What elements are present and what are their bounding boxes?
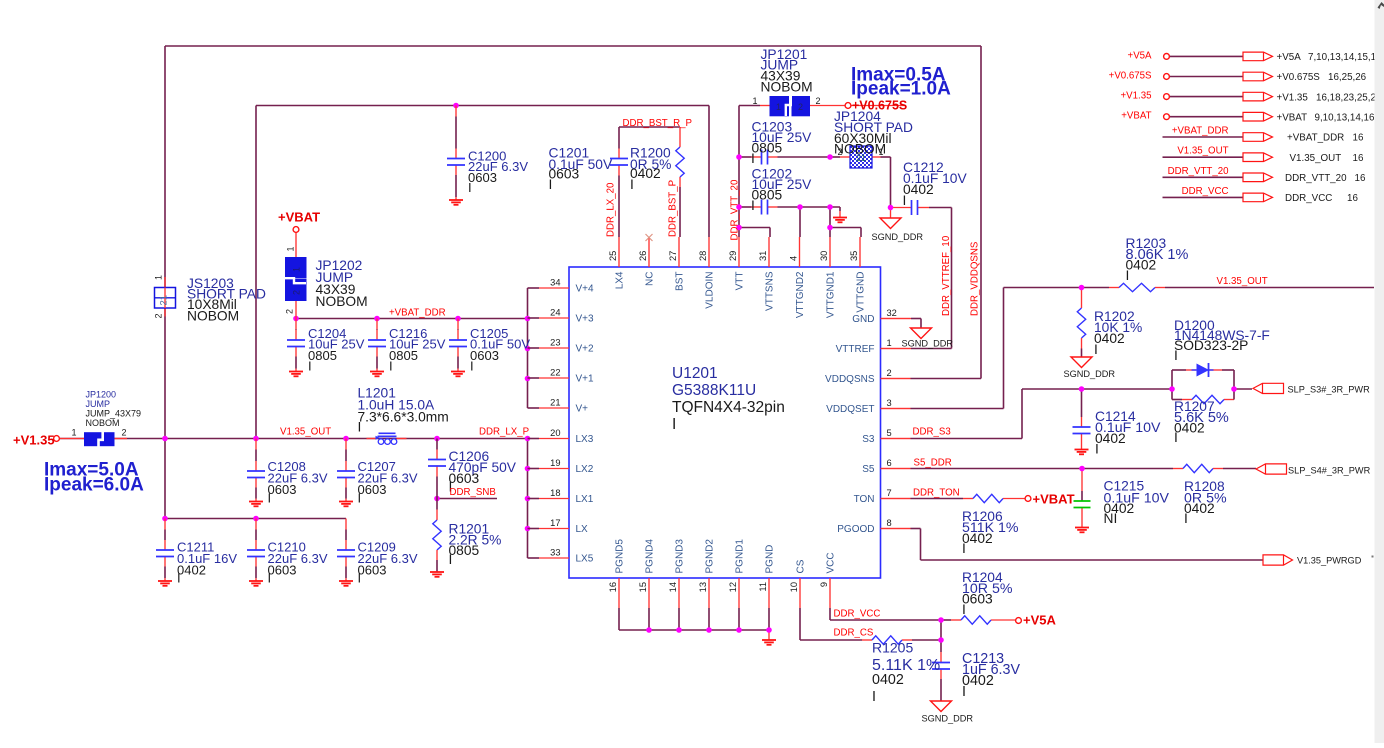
pin 4 VTTGND2 [789,237,807,318]
pin 22 V+1 [528,368,595,385]
pin 29 VTT [728,237,746,290]
svg-text:Ipeak=1.0A: Ipeak=1.0A [851,79,951,100]
wire S5 / SLP_S4 row [881,468,911,470]
svg-text:VTT: VTT [735,272,746,291]
svg-text:16: 16 [1353,133,1364,144]
svg-text:2: 2 [798,102,803,112]
capacitor C1213 [932,663,950,670]
jumper JP1200 [72,428,127,448]
label C1212 value [903,160,968,208]
wire DDR_VDDQSNS vertical [980,46,982,379]
node +VBAT terminal at JP1202 [278,210,320,233]
wire VTTGND1 pin30 vertical [829,207,831,228]
svg-text:16,25,26: 16,25,26 [1328,72,1367,83]
label JS1203 [187,276,266,324]
svg-text:+V0.675S: +V0.675S [1109,71,1152,82]
svg-text:BST: BST [675,272,686,291]
svg-text:DDR_VCC: DDR_VCC [834,609,881,620]
svg-text:0402: 0402 [630,166,661,181]
capacitor C1200 [447,106,465,205]
pin 21 V+ [528,398,589,415]
svg-text:VDDQSET: VDDQSET [826,404,874,415]
svg-text:I: I [449,552,453,567]
svg-text:DDR_LX_20: DDR_LX_20 [606,182,617,237]
svg-text:I: I [672,416,676,433]
svg-text:2: 2 [292,290,302,295]
svg-text:4: 4 [789,256,799,261]
svg-text:NOBOM: NOBOM [761,80,813,95]
svg-text:2: 2 [887,368,892,378]
svg-text:0603: 0603 [268,563,297,578]
svg-text:PGND1: PGND1 [735,539,746,574]
wire V1.35_OUT top rail [165,45,981,47]
capacitor C1204 [287,319,305,377]
capacitor C1216 [368,319,386,377]
label R1205 value [872,640,940,706]
label C1209 value [358,540,418,586]
pin 10 CS [789,559,807,608]
jumper JS1203 [154,275,176,319]
svg-text:S3: S3 [862,434,875,445]
pin 11 PGND [758,545,776,608]
label L1201 value [358,386,449,435]
svg-text:28: 28 [698,251,708,261]
svg-text:SGND_DDR: SGND_DDR [1064,369,1116,379]
svg-text:NOBOM: NOBOM [834,142,886,157]
ground SGND_DDR at C1212 junction [872,218,924,242]
svg-text:TQFN4X4-32pin: TQFN4X4-32pin [672,399,785,416]
svg-text:0805: 0805 [308,348,337,363]
pin 13 PGND2 [698,539,716,608]
wire VLDOIN rail [256,105,709,107]
svg-text:NOBOM: NOBOM [316,294,368,309]
svg-text:0603: 0603 [268,482,297,497]
wire VTT row y157 [739,156,752,158]
svg-text:26: 26 [638,251,648,261]
pin 27 BST [668,237,686,291]
label R1202 value [1094,309,1142,357]
net stub DDR_VCC [1163,186,1359,204]
svg-text:G5388K11U: G5388K11U [672,382,756,399]
svg-text:16,18,23,25,26: 16,18,23,25,26 [1316,92,1382,103]
svg-text:NOBOM: NOBOM [86,418,120,428]
svg-text:VTTGND: VTTGND [856,272,867,313]
svg-text:+VBAT: +VBAT [278,210,320,225]
svg-text:PGOOD: PGOOD [837,524,874,535]
label R1208 value [1184,479,1227,526]
svg-text:+VBAT: +VBAT [1033,492,1075,507]
pin 19 LX2 [528,458,594,475]
wire SGND at C1212 [890,208,892,219]
label C1206 value [449,449,517,495]
svg-text:24: 24 [550,308,560,318]
wire JP1201 to +V0.675S [810,105,846,107]
svg-text:16: 16 [1347,193,1358,204]
wire VDDQSET to V1.35_OUT [1003,288,1005,409]
svg-text:0402: 0402 [1174,421,1205,436]
pin 23 V+2 [528,338,595,355]
svg-text:21: 21 [159,295,170,306]
svg-text:I: I [468,180,472,195]
svg-text:DDR_VDDQSNS: DDR_VDDQSNS [970,241,981,316]
svg-text:34: 34 [550,278,560,288]
svg-text:1: 1 [154,275,164,280]
svg-text:DDR_VTT_20: DDR_VTT_20 [730,179,741,240]
label R1207 value [1174,399,1229,445]
wire DDR_TON row [881,498,911,500]
label R1203 value [1126,236,1189,283]
svg-text:29: 29 [728,251,738,261]
wire VCC / DDR_VCC row [829,608,831,620]
svg-text:I: I [549,177,553,192]
connector SLP_S4#_3R_PWR [1256,464,1371,476]
wire VTT vertical chain [738,106,740,238]
label C1216 value [389,326,446,374]
svg-text:V+1: V+1 [576,374,595,385]
svg-text:DDR_S3: DDR_S3 [913,427,951,438]
svg-text:7,10,13,14,15,16: 7,10,13,14,15,16 [1308,52,1382,63]
label R1204 value [962,570,1013,617]
resistor R1202 10K [1077,308,1085,338]
net stub +V5A [1128,50,1383,63]
svg-text:25: 25 [608,251,618,261]
svg-text:PGND4: PGND4 [645,539,656,574]
svg-text:35: 35 [849,251,859,261]
wire left pin bus upper [527,288,529,408]
svg-text:0603: 0603 [470,348,499,363]
svg-text:LX3: LX3 [576,434,594,445]
resistor R1200 0R [676,147,684,177]
svg-text:SGND_DDR: SGND_DDR [872,232,924,242]
svg-text:0603: 0603 [358,563,387,578]
svg-text:1: 1 [286,246,296,251]
pin 32 GND [852,308,910,325]
capacitor C1210 [247,519,265,586]
pin 18 LX1 [528,488,594,505]
label C1202 value [751,167,812,214]
svg-text:I: I [962,541,966,556]
svg-text:7: 7 [887,488,892,498]
svg-text:0402: 0402 [903,182,934,197]
label C1208 value [268,459,328,506]
pin 30 VTTGND1 [819,237,837,318]
svg-text:1: 1 [887,338,892,348]
svg-text:16: 16 [608,582,618,592]
svg-text:SOD323-2P: SOD323-2P [1174,338,1248,353]
svg-text:SGND_DDR: SGND_DDR [902,339,954,349]
svg-text:I: I [630,177,634,192]
net stub +VBAT_DDR [1163,126,1364,144]
svg-text:I: I [903,193,907,208]
pin 33 LX5 [528,548,594,565]
junction dots [453,103,459,109]
annotation Imax/Ipeak top [851,65,951,100]
svg-text:I: I [268,571,272,586]
svg-text:DDR_TON: DDR_TON [913,488,960,499]
svg-text:V+: V+ [576,404,589,415]
svg-text:0805: 0805 [752,141,783,156]
svg-text:I: I [751,198,755,213]
annotation Imax/Ipeak left [44,460,144,496]
svg-text:DDR_VTTREF_10: DDR_VTTREF_10 [941,235,952,316]
svg-text:+V1.35: +V1.35 [13,433,55,448]
svg-text:1: 1 [753,96,758,106]
svg-text:I: I [268,491,272,506]
svg-text:I: I [751,151,755,166]
svg-text:VTTSNS: VTTSNS [765,271,776,311]
svg-text:V1.35_OUT: V1.35_OUT [280,427,331,438]
svg-text:PGND2: PGND2 [705,539,716,574]
pin 1 VTTREF [836,338,911,355]
svg-text:+V5A: +V5A [1023,613,1056,628]
svg-text:31: 31 [758,251,768,261]
svg-text:TON: TON [854,494,875,505]
pin 14 PGND3 [668,539,686,608]
label C1207 value [358,459,418,506]
svg-text:I: I [358,571,362,586]
wire VLDOIN rail drop to V1.35_OUT line [255,106,257,439]
svg-text:0603: 0603 [468,170,497,185]
svg-text:SLP_S3#_3R_PWR: SLP_S3#_3R_PWR [1288,385,1371,395]
wire C1212 / VTTREF [891,207,912,209]
svg-text:8: 8 [887,518,892,528]
jumper JP1201 [753,95,821,116]
svg-text:13: 13 [698,582,708,592]
capacitor C1214 [1073,427,1091,454]
svg-text:1: 1 [292,267,302,272]
capacitor C1209 [337,519,355,586]
svg-text:0402: 0402 [962,531,993,546]
svg-text:S5_DDR: S5_DDR [914,458,952,469]
wire DDR_S3 net [881,438,911,440]
wire CS sense vertical to C1213 [940,620,942,652]
svg-text:NI: NI [1104,511,1118,526]
svg-text:SLP_S4#_3R_PWR: SLP_S4#_3R_PWR [1288,466,1371,476]
svg-text:12: 12 [728,582,738,592]
wire V1.35_OUT horizontal (left) [59,438,528,440]
pin 12 PGND1 [728,539,746,608]
svg-text:DDR_VCC: DDR_VCC [1285,193,1332,204]
label D1200 value [1174,318,1270,363]
svg-text:18: 18 [550,488,560,498]
svg-text:0402: 0402 [1094,331,1125,346]
capacitor C1203 [762,150,768,165]
svg-text:0402: 0402 [872,672,904,688]
pin 25 LX4 [608,237,626,289]
ground SGND_DDR under C1213 [922,701,974,724]
svg-text:I: I [1095,442,1099,457]
scrollbar [1372,0,1384,743]
svg-text:CS: CS [796,559,807,573]
connector V1.35_PWRGD [1263,555,1362,566]
label C1211 value [177,540,237,586]
capacitor C1208 [247,439,265,507]
svg-text:2: 2 [154,313,164,318]
svg-text:V1.35_OUT: V1.35_OUT [1177,146,1228,157]
node +V5A terminal at R1204 [1016,613,1057,628]
svg-text:2: 2 [816,96,821,106]
pin 6 S5 [862,458,910,475]
pin 17 LX [528,518,589,535]
svg-text:LX1: LX1 [576,494,594,505]
resistor R1207 5.6K [1192,395,1224,403]
svg-text:0402: 0402 [177,563,206,578]
svg-text:NOBOM: NOBOM [187,309,239,324]
svg-text:14: 14 [668,582,678,592]
svg-text:V1.35_OUT: V1.35_OUT [1290,153,1342,164]
svg-text:+V1.35: +V1.35 [1277,92,1309,103]
svg-text:I: I [177,571,181,586]
svg-text:JP1200: JP1200 [86,390,117,400]
svg-text:VTTREF: VTTREF [836,344,875,355]
svg-text:0603: 0603 [449,471,480,486]
svg-text:19: 19 [550,458,560,468]
net stub +V0.675S [1109,71,1367,84]
wire VTTSNS link y227.5 [739,227,770,229]
svg-text:I: I [1174,430,1178,445]
pin 5 S3 [862,428,910,445]
wire VTTGND2 pin4 vertical [799,207,801,237]
svg-text:LX: LX [576,524,589,535]
capacitor C1207 [337,439,355,507]
pin 24 V+3 [528,308,595,325]
svg-text:7.3*6.6*3.0mm: 7.3*6.6*3.0mm [358,410,449,425]
svg-text:+VBAT_DDR: +VBAT_DDR [389,308,446,319]
capacitor C1205 [449,319,467,377]
svg-text:30: 30 [819,251,829,261]
ground SGND_DDR under R1202 [1064,357,1116,379]
svg-text:+VBAT: +VBAT [1277,112,1308,123]
svg-text:+V5A: +V5A [1277,52,1302,63]
svg-text:0402: 0402 [1184,501,1215,516]
svg-text:PGND3: PGND3 [675,539,686,574]
svg-text:JUMP_43X79: JUMP_43X79 [86,409,142,419]
wire VTTGND row y207 [739,206,752,208]
svg-text:VCC: VCC [826,552,837,573]
svg-text:0402: 0402 [1095,431,1126,446]
resistor R1208 0R [1183,464,1213,472]
svg-text:V1.35_OUT: V1.35_OUT [1217,276,1268,287]
capacitor C1215 (NI, green) [1074,501,1091,532]
svg-text:0402: 0402 [1126,258,1157,273]
svg-text:U1201: U1201 [672,365,718,382]
label JP1202 [316,258,368,309]
wire bottom caps rail [165,518,346,520]
wire left pin bus lower [527,439,529,559]
svg-text:I: I [1174,348,1178,363]
svg-text:I: I [962,602,966,617]
pin 26 NC [638,237,656,286]
ground SGND_DDR at pin32 [902,328,954,349]
pin 34 V+4 [528,278,595,295]
wire C1214 branch [1081,389,1083,417]
wire DDR_SNB stub [437,498,497,500]
resistor R1203 8.06K [1119,283,1155,291]
wire R1202 branch [1081,288,1083,295]
pin 2 VDDQSNS [825,368,910,385]
svg-text:16: 16 [1355,173,1366,184]
svg-text:2: 2 [285,309,295,314]
net stub DDR_VTT_20 [1163,166,1366,184]
svg-text:22: 22 [550,368,560,378]
wire V1.35_OUT right rail [1004,287,1110,289]
svg-text:+VBAT_DDR: +VBAT_DDR [1172,126,1229,137]
svg-text:0402: 0402 [962,673,994,689]
svg-text:I: I [308,359,312,374]
svg-text:I: I [358,491,362,506]
svg-text:15: 15 [638,582,648,592]
svg-text:V+2: V+2 [576,344,595,355]
svg-text:+VBAT_DDR: +VBAT_DDR [1287,133,1344,144]
svg-text:NC: NC [645,272,656,286]
svg-text:DDR_BST_P: DDR_BST_P [668,180,679,237]
svg-text:I: I [872,689,876,705]
svg-text:LX5: LX5 [576,554,594,565]
svg-text:3: 3 [887,398,892,408]
svg-text:DDR_LX_P: DDR_LX_P [479,427,529,438]
wire C1215 branch [1081,469,1083,492]
svg-text:+V0.675S: +V0.675S [1277,72,1321,83]
label C1203 value [751,120,812,167]
connector SLP_S3#_3R_PWR [1253,383,1370,394]
svg-text:S5: S5 [862,464,875,475]
svg-text:33: 33 [550,548,560,558]
svg-text:0805: 0805 [449,543,480,558]
net stub V1.35_OUT [1163,146,1364,164]
svg-text:I: I [1184,511,1188,526]
svg-text:DDR_SNB: DDR_SNB [450,487,496,498]
svg-text:PGND: PGND [765,545,776,574]
svg-text:20: 20 [550,428,560,438]
svg-text:5: 5 [887,428,892,438]
svg-text:10: 10 [789,582,799,592]
pin 8 PGOOD [837,518,910,535]
label C1215 value [1104,479,1170,527]
resistor R1201 2.2R snubber [430,499,444,577]
svg-text:0603: 0603 [358,482,387,497]
svg-text:VLDOIN: VLDOIN [705,272,716,309]
label R1206 value [962,509,1019,556]
svg-text:I: I [1126,268,1130,283]
label R1200 value [630,146,671,193]
node +VBAT terminal at TON [1025,492,1074,507]
node +V0.675S terminal [845,99,907,113]
wire JP1204 stubs [830,156,840,158]
label C1200 value [468,149,528,196]
capacitor C1206 [428,439,446,499]
svg-text:0805: 0805 [752,188,783,203]
svg-text:1: 1 [776,102,781,112]
wire stub under +V0.675S [851,105,906,107]
svg-text:6: 6 [887,458,892,468]
ground at VTT rail [833,217,847,219]
pin 28 VLDOIN [698,237,716,309]
svg-text:DDR_VTT_20: DDR_VTT_20 [1168,166,1229,177]
wire DDR_BST loop [619,126,680,128]
diode D1200 1N4148WS-7-F [1192,363,1214,377]
svg-text:VDDQSNS: VDDQSNS [825,374,875,385]
svg-text:+VBAT: +VBAT [1121,111,1151,122]
svg-text:0805: 0805 [389,348,418,363]
svg-text:2: 2 [122,428,127,438]
pin 7 TON [854,488,911,505]
svg-text:0603: 0603 [962,592,993,607]
label C1205 value [470,326,530,374]
jumper JP1204 short pad [837,146,883,168]
svg-text:27: 27 [668,251,678,261]
pin 9 VCC [819,552,837,608]
node +V1.35 terminal [13,433,59,448]
